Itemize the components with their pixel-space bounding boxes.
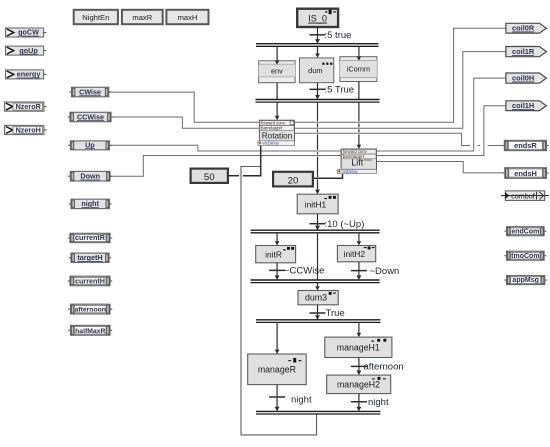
join bar6 — [256, 410, 380, 412]
svg-text:NightEn: NightEn — [82, 13, 109, 22]
Lift delay row visDelay — [338, 169, 377, 173]
transition tick True — [310, 312, 326, 314]
wire bar5 to manageH1 — [358, 322, 360, 333]
wire feedback loop from join bar6 — [241, 167, 317, 435]
transition tick night left — [269, 396, 285, 398]
wire bar3 to initH2 — [358, 233, 360, 242]
svg-text:goUp: goUp — [19, 46, 38, 55]
constant 20 — [273, 172, 313, 187]
tag currentH — [68, 280, 70, 282]
tag Up — [68, 144, 70, 146]
state initH2 — [337, 246, 375, 262]
input port NzeroH — [5, 125, 44, 134]
fork bar3 — [251, 229, 380, 231]
svg-text:Lift: Lift — [351, 158, 364, 168]
fork bar5 — [256, 319, 380, 321]
svg-text:endsH: endsH — [514, 169, 537, 178]
svg-text:coil0H: coil0H — [512, 74, 534, 83]
output port coil0R — [506, 23, 547, 33]
state initR — [256, 246, 296, 263]
svg-text:coil0R: coil0R — [512, 24, 535, 33]
wire Up to coil0H — [109, 78, 506, 151]
activity Lift — [341, 149, 376, 169]
wire 20 to Lift delay port — [313, 173, 343, 178]
state env — [259, 61, 295, 83]
svg-text:NzeroH: NzeroH — [16, 125, 41, 134]
wire bar3 to initR — [276, 233, 278, 242]
svg-text:Up: Up — [85, 140, 95, 149]
transition tick :5 True — [310, 88, 326, 90]
tag appMsg — [504, 279, 506, 281]
tag targetH — [69, 257, 71, 259]
wire env to bar2 — [276, 83, 278, 100]
Rotation delay row visDelay — [258, 141, 295, 146]
tag endsR — [502, 145, 504, 147]
join bar4 — [251, 279, 380, 281]
activity Rotation — [259, 120, 294, 145]
state dum — [300, 58, 334, 83]
svg-text:manageH2: manageH2 — [337, 380, 380, 390]
arrow into iComm — [358, 56, 360, 57]
output port coil1R — [506, 47, 547, 57]
transition tick :5 true — [310, 34, 326, 36]
tag night — [69, 203, 71, 205]
svg-text:appMsg: appMsg — [512, 277, 538, 284]
data store maxH — [166, 10, 208, 24]
wire manageH2 to bar6 — [358, 394, 360, 408]
svg-text:night: night — [291, 395, 312, 406]
data store maxR — [122, 10, 163, 24]
svg-text:energy: energy — [17, 70, 41, 79]
tag endCom — [504, 230, 506, 232]
svg-text:env: env — [271, 67, 283, 76]
wire bar3 to bar4 center — [317, 233, 319, 280]
svg-text:CWise: CWise — [79, 87, 101, 96]
wire bar5 to manageR — [276, 322, 278, 350]
wire IS_0 to bar1 — [317, 27, 319, 44]
wire manageR to bar6 — [276, 385, 278, 408]
svg-text::10 (~Up): :10 (~Up) — [325, 219, 365, 230]
svg-text:coil1R: coil1R — [512, 47, 535, 56]
svg-text:True: True — [326, 308, 345, 319]
wire bar2 to Lift — [358, 102, 360, 121]
state dum3 — [298, 291, 338, 305]
output port coil0H — [506, 73, 547, 83]
svg-text:afternoon: afternoon — [364, 362, 404, 373]
svg-text:coil1H: coil1H — [512, 101, 534, 110]
tag CCWise — [68, 116, 70, 118]
wire bar2 to Rotation — [276, 102, 278, 116]
svg-text:barrelapprt: barrelapprt — [261, 126, 283, 131]
svg-text::5 true: :5 true — [325, 30, 352, 41]
constant 50 — [191, 169, 228, 183]
svg-text:fltdlv: fltdlv — [364, 157, 372, 162]
svg-text:goCW: goCW — [18, 28, 39, 37]
svg-text:20: 20 — [288, 175, 299, 186]
svg-text:~CCWise: ~CCWise — [284, 266, 324, 277]
transition tick :10 (~Up) — [310, 223, 326, 225]
fork bar1 — [256, 43, 379, 45]
svg-text:Rotation: Rotation — [262, 131, 293, 140]
tag tmoCom — [504, 255, 506, 257]
wire dum to bar2 — [317, 83, 319, 96]
wire bar2 to initH1 (long center) — [317, 102, 319, 121]
svg-text:iComm: iComm — [347, 65, 370, 74]
wire CWise to coil0R — [109, 28, 506, 122]
svg-text:50: 50 — [204, 172, 215, 183]
join bar2 — [256, 99, 380, 101]
transition tick ~Down — [351, 270, 367, 272]
svg-text:initH2: initH2 — [344, 249, 366, 259]
state manageR — [248, 354, 307, 385]
state iComm — [340, 57, 377, 82]
input port NzeroR — [5, 102, 44, 111]
state manageH2 — [327, 375, 391, 394]
state manageH1 — [325, 337, 392, 357]
wire Rotation delay port down — [260, 145, 262, 176]
tag combuf crossed — [501, 191, 549, 201]
svg-text::5 True: :5 True — [325, 85, 355, 96]
svg-text:NzeroR: NzeroR — [16, 102, 42, 111]
tag currentR — [68, 237, 70, 239]
svg-text:currentH: currentH — [75, 276, 105, 285]
svg-text:initH1: initH1 — [305, 199, 327, 209]
svg-text:manageR: manageR — [258, 364, 296, 374]
svg-text:currentR: currentR — [75, 233, 106, 242]
svg-text:dum: dum — [308, 66, 322, 75]
svg-text:CCWise: CCWise — [77, 112, 104, 121]
svg-text:night: night — [368, 397, 389, 408]
input port energy — [6, 70, 44, 79]
wire bar4 to dum3 — [317, 282, 319, 286]
state initH1 — [297, 194, 338, 214]
transition tick night right — [351, 401, 367, 403]
wire bar1 to iComm — [358, 47, 360, 56]
arrow into env — [276, 60, 278, 61]
svg-text:~Down: ~Down — [370, 266, 400, 277]
transition tick afternoon — [351, 365, 367, 367]
input port goCW — [6, 28, 44, 37]
data store NightEn — [74, 10, 118, 24]
svg-text:Down: Down — [80, 172, 100, 181]
svg-text:maxR: maxR — [132, 13, 152, 22]
output port coil1H — [506, 101, 547, 111]
wire bar1 to env — [276, 47, 278, 60]
wire initH1 to bar3 — [317, 214, 319, 230]
svg-text:visDelay: visDelay — [262, 141, 279, 146]
tag afternoon — [68, 308, 70, 310]
svg-text:tmoCom: tmoCom — [511, 253, 539, 260]
transition tick ~CCWise — [269, 269, 285, 271]
wire Rotation to endsR — [295, 133, 470, 145]
wire bar1 to dum — [317, 47, 319, 54]
wire Lift to endsH — [377, 162, 505, 173]
svg-text:endCom: endCom — [511, 228, 539, 235]
wire Down to coil1H — [110, 106, 506, 177]
wire 50 to Rotation delay port — [228, 175, 239, 177]
wire manageH1 to manageH2 — [358, 358, 360, 371]
svg-text:IS_0: IS_0 — [308, 14, 327, 24]
state IS_0 — [297, 9, 338, 27]
svg-text:halfMaxR: halfMaxR — [75, 328, 105, 335]
svg-text:visDelay: visDelay — [342, 169, 359, 174]
svg-text:night: night — [81, 199, 99, 208]
wire dum3 to bar5 — [317, 305, 319, 320]
tag halfMaxR — [68, 329, 70, 331]
tag endsH — [503, 172, 505, 174]
wire iComm to bar2 — [358, 82, 360, 100]
tag CWise — [69, 91, 71, 93]
svg-text:targetH: targetH — [77, 253, 102, 262]
svg-text:manageH1: manageH1 — [337, 343, 380, 353]
svg-text:dum3: dum3 — [305, 293, 327, 303]
wire CCWise to coil1R — [111, 52, 506, 129]
svg-text:endsR: endsR — [514, 141, 537, 150]
wire initR to bar4 — [276, 263, 278, 276]
wire initH2 to bar4 — [358, 262, 360, 276]
svg-text:initR: initR — [265, 249, 282, 259]
svg-text:afternoon: afternoon — [75, 307, 106, 314]
svg-text:maxH: maxH — [178, 13, 198, 22]
tag Down — [68, 175, 70, 177]
input port goUp — [6, 46, 44, 55]
